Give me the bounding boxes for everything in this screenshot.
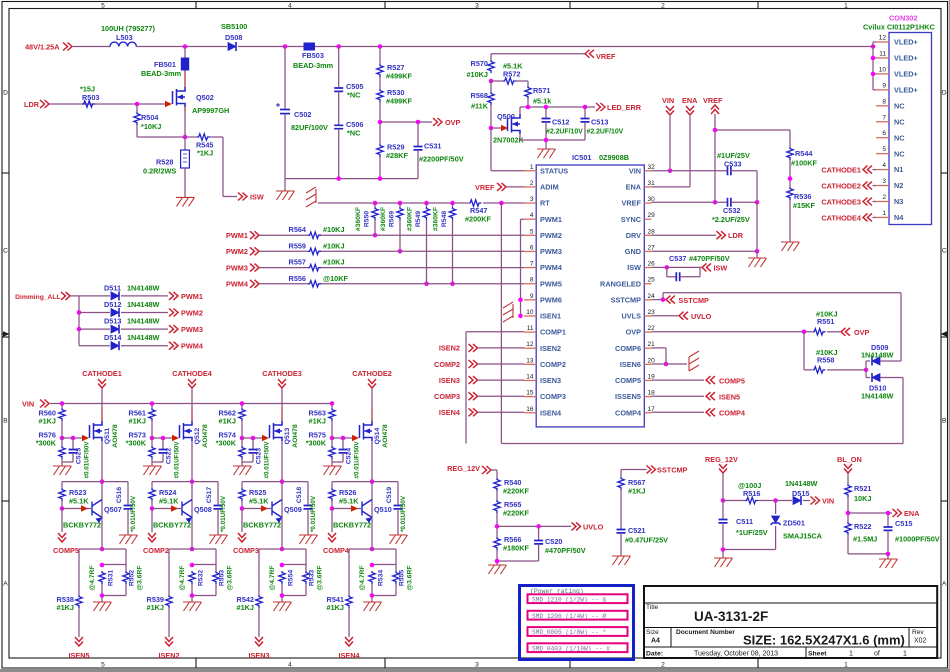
svg-text:COMP5: COMP5: [719, 376, 745, 385]
wire loop bottom: [501, 443, 903, 445]
svg-text:#1KJ: #1KJ: [628, 487, 645, 496]
node R516: [721, 498, 726, 503]
node VIN rail / R563: [330, 401, 335, 406]
resistor R574: [239, 446, 245, 459]
svg-text:#0.01UF/50V: #0.01UF/50V: [264, 441, 271, 479]
svg-text:#5.1K: #5.1K: [69, 497, 89, 506]
wire sense node: [370, 547, 375, 552]
svg-text:*1UF/25V: *1UF/25V: [736, 528, 768, 537]
svg-text:13: 13: [526, 357, 534, 364]
resistor R527: [379, 47, 381, 65]
pin 5 PWM2: [524, 234, 536, 236]
wire ISEN3 to pin: [478, 379, 524, 381]
node UVLO divider: [495, 524, 500, 529]
svg-text:VIN: VIN: [822, 497, 834, 506]
svg-text:#499KF: #499KF: [386, 72, 413, 81]
resistor R532: [192, 564, 216, 566]
wire 48V input to L503: [73, 46, 110, 48]
wire base feed row: [62, 481, 128, 483]
wire OVP row: [380, 121, 432, 123]
svg-text:22: 22: [648, 325, 656, 332]
svg-text:*300K: *300K: [306, 439, 327, 448]
svg-text:Q508: Q508: [194, 505, 212, 514]
svg-text:R569: R569: [389, 211, 396, 227]
resistor R524: [151, 482, 153, 488]
svg-text:CATHODE2: CATHODE2: [821, 182, 861, 191]
svg-text:C520: C520: [545, 537, 562, 546]
svg-text:#5.1K: #5.1K: [159, 497, 179, 506]
pin 26 ISW: [644, 267, 651, 269]
net ISEN3 port: [255, 637, 263, 646]
transistor Q508: [182, 500, 192, 518]
resistor R572: [491, 80, 503, 82]
svg-text:#2200PF/50V: #2200PF/50V: [419, 155, 464, 164]
svg-text:ISEN4: ISEN4: [338, 651, 360, 660]
resistor R516: [723, 500, 745, 502]
svg-text:12: 12: [526, 341, 534, 348]
resistor R565: [494, 500, 500, 513]
wire UVLO row: [497, 525, 571, 527]
pin 10 ISEN1: [524, 315, 536, 317]
svg-text:AOI478: AOI478: [112, 424, 119, 448]
resistor R562: [241, 404, 243, 409]
svg-text:*300K: *300K: [36, 439, 57, 448]
node OVP row: [378, 120, 383, 125]
pin 4 N1: [876, 169, 889, 171]
pin 6 NC: [876, 137, 889, 139]
svg-text:*2.2UF/25V: *2.2UF/25V: [712, 215, 750, 224]
wire OVP row pin 22: [651, 331, 812, 333]
resistor R539: [168, 549, 170, 595]
wire ISEN6 pin 20: [651, 363, 687, 365]
wire ENA row pin 31: [651, 186, 690, 188]
svg-text:#5.1K: #5.1K: [249, 497, 269, 506]
svg-text:LDR: LDR: [24, 100, 40, 109]
svg-text:D: D: [942, 89, 947, 96]
wire OVP to R558: [803, 332, 805, 370]
diode D515: [776, 500, 792, 502]
capacitor C511: [722, 501, 724, 520]
svg-text:7: 7: [530, 261, 534, 268]
wire sense bottom: [371, 584, 373, 596]
wire SSTCMP row pin 24: [651, 299, 663, 301]
resistor R541: [348, 549, 350, 595]
pin 23 UVLS: [644, 315, 651, 317]
svg-text:NC: NC: [894, 133, 905, 142]
svg-text:D511: D511: [104, 283, 121, 292]
transistor Q512: [180, 421, 193, 441]
svg-text:1N4148W: 1N4148W: [127, 317, 160, 326]
svg-text:1: 1: [844, 662, 848, 669]
svg-text:16: 16: [526, 406, 534, 413]
svg-text:1: 1: [530, 164, 534, 171]
svg-text:UVLO: UVLO: [691, 312, 712, 321]
svg-text:PWM3: PWM3: [181, 325, 203, 334]
svg-text:6: 6: [882, 130, 886, 137]
svg-text:#1KJ: #1KJ: [147, 603, 164, 612]
svg-text:IC501: IC501: [572, 153, 591, 162]
svg-text:#15KF: #15KF: [793, 201, 815, 210]
svg-text:VIN: VIN: [22, 400, 34, 409]
wire base row: [240, 506, 245, 511]
ground below C532: [748, 258, 767, 267]
svg-text:COMP4: COMP4: [323, 546, 350, 555]
svg-text:*0.01UF/50V: *0.01UF/50V: [400, 495, 407, 532]
power rating legend box: [520, 586, 634, 660]
svg-text:R564: R564: [289, 225, 307, 234]
svg-text:COMP3: COMP3: [233, 546, 259, 555]
diode D513: [79, 328, 110, 330]
ground fork at ISEN1: [503, 302, 513, 322]
net UVLO port (right): [651, 315, 678, 317]
svg-text:10: 10: [879, 66, 887, 73]
node C505 branch: [336, 44, 341, 49]
svg-text:N1: N1: [894, 165, 903, 174]
svg-text:4: 4: [288, 2, 292, 9]
wire ISW row pin 26: [651, 266, 667, 268]
resistor R534: [372, 564, 396, 566]
svg-text:Q502: Q502: [196, 93, 214, 102]
svg-text:5: 5: [882, 146, 886, 153]
resistor R545: [197, 134, 210, 140]
ground fork at ISEN6: [689, 351, 699, 371]
svg-text:R532: R532: [198, 570, 205, 586]
svg-text:R534: R534: [378, 570, 385, 586]
svg-text:@4.7RF: @4.7RF: [179, 565, 186, 590]
pin 6 PWM3: [524, 250, 536, 252]
resistor R568: [490, 81, 492, 92]
svg-text:4: 4: [882, 162, 886, 169]
svg-text:5: 5: [530, 228, 534, 235]
svg-text:A: A: [942, 580, 947, 587]
svg-text:A4: A4: [651, 638, 660, 645]
wire sense node: [280, 547, 285, 552]
wire loop right side: [900, 293, 902, 361]
capacitor C518: [307, 482, 309, 506]
wire COMP6 pin 21: [651, 347, 666, 349]
wire GND row pin 27: [651, 250, 757, 252]
svg-text:D512: D512: [104, 300, 121, 309]
svg-text:BCKBY772: BCKBY772: [333, 521, 371, 530]
svg-text:2: 2: [530, 180, 534, 187]
wire gate row: [150, 436, 155, 441]
inductor L503: [110, 42, 136, 46]
svg-text:23: 23: [648, 309, 656, 316]
wire FET source down: [371, 441, 373, 549]
svg-text:D508: D508: [225, 33, 242, 42]
svg-text:VREF: VREF: [596, 52, 616, 61]
ground below R574: [233, 466, 252, 475]
svg-text:ISEN6: ISEN6: [620, 360, 641, 369]
svg-text:VREF: VREF: [622, 199, 642, 208]
node Q502 source: [183, 135, 188, 140]
wire gate row: [330, 436, 335, 441]
svg-text:COMP2: COMP2: [540, 360, 566, 369]
svg-text:21: 21: [648, 341, 656, 348]
svg-text:32: 32: [648, 164, 656, 171]
svg-text:CON302: CON302: [889, 14, 917, 23]
svg-text:R548: R548: [441, 211, 448, 227]
svg-text:Q512: Q512: [194, 427, 201, 444]
ground below R532: [183, 602, 202, 611]
svg-text:UA-3131-2F: UA-3131-2F: [694, 609, 768, 624]
svg-text:R530: R530: [387, 88, 404, 97]
svg-text:*0.01UF/50V: *0.01UF/50V: [130, 495, 137, 532]
resistor R553: [215, 549, 217, 571]
svg-text:C525: C525: [76, 448, 83, 464]
resistor R521: [845, 484, 851, 497]
net VREF port (top): [585, 50, 594, 58]
svg-text:SSTCMP: SSTCMP: [611, 295, 642, 304]
svg-text:LDR: LDR: [728, 231, 744, 240]
wire main 48V rail to connector: [238, 46, 873, 48]
capacitor C522: [162, 438, 164, 450]
transistor Q513: [270, 421, 283, 441]
svg-text:7: 7: [882, 114, 886, 121]
svg-text:Q511: Q511: [104, 428, 111, 444]
svg-text:0Z9908B: 0Z9908B: [599, 153, 629, 162]
svg-text:*NC: *NC: [347, 91, 361, 100]
svg-text:Q510: Q510: [374, 505, 392, 514]
svg-text:#5.1K: #5.1K: [339, 497, 359, 506]
resistor R547: [468, 198, 483, 207]
svg-text:A: A: [3, 580, 8, 587]
svg-text:SMD_1206 (1/4W) -- @: SMD_1206 (1/4W) -- @: [532, 613, 607, 620]
node R570/R572: [489, 79, 494, 84]
svg-text:R553: R553: [219, 570, 226, 586]
svg-text:*300K: *300K: [126, 439, 147, 448]
pin 1 N4: [876, 216, 889, 218]
capacitor C523: [252, 438, 254, 450]
svg-text:PWM1: PWM1: [226, 231, 248, 240]
svg-text:#1KJ: #1KJ: [309, 417, 326, 426]
resistor R564: [308, 232, 321, 238]
resistor R544: [787, 147, 793, 160]
pin 7 PWM4: [524, 267, 536, 269]
wire Q500 source row: [519, 134, 521, 140]
svg-text:9: 9: [530, 293, 534, 300]
svg-text:4: 4: [288, 662, 292, 669]
svg-text:Size: Size: [646, 629, 659, 636]
svg-text:ADIM: ADIM: [540, 183, 559, 192]
svg-text:AOI478: AOI478: [382, 424, 389, 448]
svg-text:C516: C516: [116, 487, 123, 503]
resistor R503: [82, 101, 95, 107]
svg-text:STATUS: STATUS: [540, 166, 568, 175]
wire COMP1 (pin 11): [466, 331, 524, 333]
node at FB501: [183, 44, 188, 49]
svg-text:R522: R522: [854, 522, 871, 531]
wire dimming bus: [78, 296, 80, 346]
ground below R531: [93, 602, 112, 611]
svg-text:#10KJ: #10KJ: [816, 310, 838, 319]
resistor R549 #360KF: [426, 203, 428, 207]
transistor Q511: [90, 421, 103, 441]
svg-text:14: 14: [526, 373, 534, 380]
resistor R567: [618, 477, 624, 490]
svg-text:ISEN2: ISEN2: [158, 651, 179, 660]
pin 12 VLED+: [876, 41, 889, 43]
ferrite bead FB501: [181, 58, 189, 71]
net ISW port: [238, 193, 247, 201]
wire sense bottom: [281, 584, 283, 596]
svg-text:R528: R528: [156, 158, 173, 167]
net ISW port (right): [702, 263, 711, 271]
svg-text:Q514: Q514: [374, 427, 381, 444]
wire L503 to D508: [136, 46, 227, 48]
svg-text:20: 20: [648, 357, 656, 364]
svg-text:#360KF: #360KF: [433, 207, 440, 231]
wire LDR to Q502 gate: [49, 103, 166, 105]
svg-text:SB5100: SB5100: [221, 22, 247, 31]
svg-text:Dimming_ALL: Dimming_ALL: [15, 294, 60, 301]
svg-text:28: 28: [648, 228, 656, 235]
svg-text:VREF: VREF: [475, 183, 495, 192]
capacitor C516: [127, 482, 129, 506]
svg-text:Document Number: Document Number: [676, 629, 735, 636]
wire STATUS net (pin 1): [490, 128, 492, 171]
net PWM3 port (dimming): [169, 325, 178, 333]
svg-text:SSTCMP: SSTCMP: [679, 296, 710, 305]
wire R504 to ISW row: [137, 136, 197, 138]
wire RT row (pin 3): [318, 202, 524, 204]
svg-text:Q513: Q513: [284, 427, 291, 444]
svg-text:C519: C519: [386, 487, 393, 503]
svg-text:C537: C537: [669, 254, 686, 263]
svg-text:6: 6: [530, 244, 534, 251]
resistor R556: [308, 281, 321, 287]
resistor R550 #360KF: [374, 203, 376, 207]
svg-text:#220KF: #220KF: [503, 509, 530, 518]
svg-text:R536: R536: [794, 192, 811, 201]
resistor R522: [845, 522, 851, 535]
svg-text:AP9997GH: AP9997GH: [192, 106, 229, 115]
svg-text:2: 2: [661, 2, 665, 9]
pin 8 PWM5: [524, 283, 536, 285]
svg-text:82UF/100V: 82UF/100V: [291, 123, 328, 132]
capacitor C521: [617, 530, 626, 533]
resistor R560: [61, 404, 63, 409]
svg-text:N4: N4: [894, 213, 904, 222]
pin 9 VLED+: [876, 89, 889, 91]
capacitor C506: [334, 125, 343, 128]
svg-text:R572: R572: [503, 69, 520, 78]
svg-text:OVP: OVP: [445, 118, 461, 127]
wire UVLO bottom: [497, 560, 539, 562]
svg-text:C515: C515: [895, 519, 912, 528]
wire FB501 to Q502 drain: [184, 71, 186, 88]
svg-text:19: 19: [648, 373, 656, 380]
diode D509: [865, 361, 867, 370]
svg-text:CATHODE4: CATHODE4: [172, 369, 213, 378]
wire CATHODE3 to FET drain: [281, 388, 283, 407]
svg-text:COMP3: COMP3: [434, 392, 460, 401]
svg-text:UVLO: UVLO: [583, 523, 604, 532]
capacitor C520: [538, 526, 540, 540]
svg-text:FB501: FB501: [154, 60, 176, 69]
svg-text:#10KJ: #10KJ: [323, 225, 345, 234]
svg-text:8: 8: [882, 98, 886, 105]
svg-text:CATHODE2: CATHODE2: [352, 369, 392, 378]
resistor R523: [61, 482, 63, 488]
svg-text:R550: R550: [364, 211, 371, 227]
wire SSTCMP loop top: [662, 293, 664, 300]
svg-text:1N4148W: 1N4148W: [127, 283, 160, 292]
svg-text:#10KJ: #10KJ: [323, 241, 345, 250]
svg-text:CATHODE4: CATHODE4: [821, 213, 862, 222]
svg-text:15: 15: [526, 390, 534, 397]
svg-text:COMP1: COMP1: [540, 328, 566, 337]
svg-text:B: B: [3, 417, 8, 424]
svg-text:ISEN3: ISEN3: [248, 651, 269, 660]
svg-text:COMP2: COMP2: [143, 546, 169, 555]
svg-text:C533: C533: [724, 160, 741, 169]
svg-text:VLED+: VLED+: [894, 70, 918, 79]
svg-text:1N4148W: 1N4148W: [785, 479, 818, 488]
svg-text:ISEN5: ISEN5: [719, 392, 740, 401]
svg-text:#1KJ: #1KJ: [57, 603, 74, 612]
svg-text:C522: C522: [166, 448, 173, 464]
net ISEN2 port: [165, 637, 173, 646]
net PWM1 port (dimming): [169, 292, 178, 300]
ground below C515: [879, 559, 898, 568]
capacitor C512: [545, 107, 547, 119]
svg-text:PWM4: PWM4: [181, 342, 204, 351]
resistor R559: [308, 248, 321, 254]
node ENA divider: [846, 511, 851, 516]
svg-text:PWM2: PWM2: [540, 231, 562, 240]
ground below C521: [612, 556, 631, 565]
wire VIN rail: [50, 403, 332, 405]
resistor R526: [331, 482, 333, 488]
svg-text:C512: C512: [552, 118, 569, 127]
resistor R570: [490, 54, 492, 60]
node R544/R536: [788, 176, 793, 181]
resistor R573: [149, 446, 155, 459]
diode D510: [865, 370, 867, 378]
pin 25 RANGELED: [644, 283, 651, 285]
wire base row: [150, 506, 155, 511]
ground below R528: [176, 197, 195, 206]
svg-text:*1KJ: *1KJ: [197, 149, 213, 158]
svg-text:#0.01UF/50V: #0.01UF/50V: [84, 441, 91, 479]
svg-text:Cvilux CI0112P1HKC: Cvilux CI0112P1HKC: [863, 23, 936, 32]
pin 11 COMP1: [524, 331, 536, 333]
resistor R571: [527, 81, 529, 86]
svg-text:X02: X02: [914, 638, 927, 645]
svg-text:PWM2: PWM2: [226, 247, 248, 256]
net COMP2 port: [151, 509, 153, 533]
window edge shading: [949, 0, 950, 672]
svg-text:Q500: Q500: [497, 112, 515, 121]
svg-text:SMAJ15CA: SMAJ15CA: [783, 532, 823, 541]
transistor Q500: [491, 127, 501, 129]
svg-text:#360KF: #360KF: [355, 207, 362, 231]
pin 28 DRV: [644, 234, 651, 236]
resistor R566: [494, 537, 500, 550]
wire R545 to ISW port: [210, 136, 223, 138]
svg-text:R527: R527: [387, 63, 404, 72]
svg-text:2: 2: [882, 194, 886, 201]
svg-text:ISW: ISW: [627, 263, 641, 272]
wire VREF to R544: [715, 129, 790, 131]
svg-text:*10KJ: *10KJ: [141, 122, 161, 131]
node C502 branch: [283, 44, 288, 49]
svg-text:C531: C531: [424, 142, 441, 151]
svg-text:#180KF: #180KF: [503, 544, 530, 553]
capacitor C515: [887, 513, 889, 527]
svg-text:ISEN3: ISEN3: [540, 376, 561, 385]
